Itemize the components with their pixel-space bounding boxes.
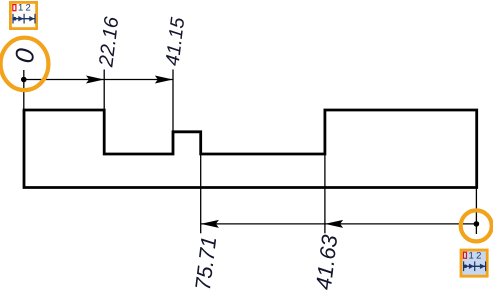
origin extension line left bbox=[23, 70, 25, 110]
arrow at 41.63 bbox=[325, 220, 343, 228]
arrow at 22.16 bbox=[86, 76, 104, 84]
icon ticks bbox=[463, 261, 465, 271]
svg-text:1: 1 bbox=[18, 3, 23, 14]
svg-text:1: 1 bbox=[469, 250, 474, 261]
top ordinate dimension line bbox=[24, 79, 173, 81]
icon arrows bbox=[18, 16, 23, 21]
origin point right bbox=[474, 221, 480, 227]
profile outline bbox=[24, 110, 477, 188]
highlight circle right bbox=[461, 210, 492, 241]
origin extension line right bbox=[475, 188, 477, 235]
bottom ordinate dimension line bbox=[201, 223, 477, 225]
extension line at x=200.7 bbox=[200, 154, 202, 233]
toolbar icon bottom-right bbox=[461, 250, 487, 276]
icon ticks bbox=[12, 14, 14, 24]
icon red 0 bbox=[13, 5, 16, 11]
highlight circle left bbox=[1, 38, 49, 90]
extension line at x=324.9 bbox=[324, 154, 326, 233]
svg-text:2: 2 bbox=[26, 3, 31, 14]
icon baseline bbox=[463, 265, 486, 267]
icon baseline bbox=[12, 18, 35, 20]
extension line at x=173 bbox=[172, 70, 174, 132]
arrow at 41.15 bbox=[155, 76, 173, 84]
toolbar icon top-left bbox=[10, 2, 36, 28]
extension line at x=104 bbox=[103, 70, 105, 110]
svg-text:2: 2 bbox=[476, 250, 481, 261]
icon origin dot bbox=[464, 265, 468, 269]
icon origin dot bbox=[13, 17, 17, 21]
icon red 0 bbox=[463, 252, 466, 258]
arrow at 75.71 bbox=[201, 220, 219, 228]
icon arrows bbox=[469, 264, 474, 269]
origin point left bbox=[21, 77, 27, 83]
